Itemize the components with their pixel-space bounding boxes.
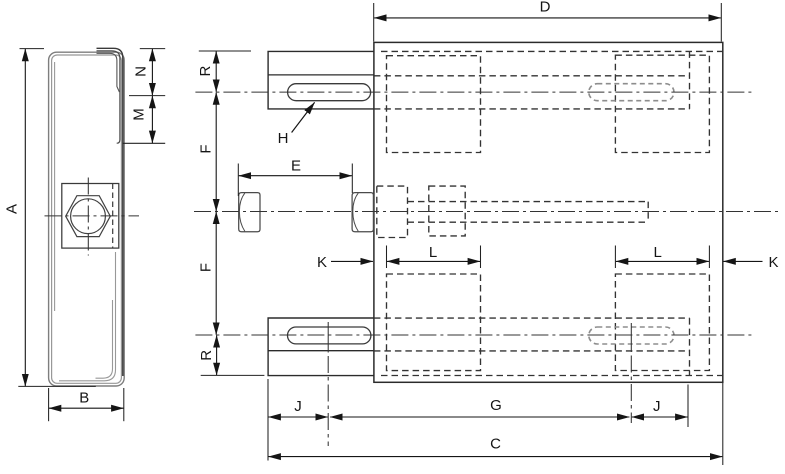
centerline bottom-right slot vertical [630,323,632,352]
dimension M extension bottom [123,142,166,144]
centerline top slots [195,91,754,93]
svg-text:J: J [653,398,661,415]
dimension L left [387,260,480,262]
side view outer profile [49,52,125,386]
dimension K right arrow [723,260,762,262]
svg-text:J: J [294,398,302,415]
screw head right chamfer arcs [353,193,359,231]
svg-text:H: H [278,130,289,147]
dimension A extension bottom [18,385,96,387]
hidden square nut [429,186,465,236]
dimension D extension right [720,3,722,42]
side view bottom-right fold outer [59,252,116,381]
hidden nut behind body [377,186,408,237]
dimension R top [215,51,217,92]
side view folded tab inner line [97,53,120,92]
dimension J right [632,416,688,418]
hex nut [66,196,111,237]
svg-text:E: E [291,157,301,174]
top-left tab block [268,51,374,109]
side view inner sheet line [52,55,122,383]
side view vertical centerline [87,178,89,256]
hidden square hole bottom-left [387,274,481,371]
dimension R bottom extension [201,374,265,376]
svg-text:K: K [768,254,778,271]
dimension A [24,49,26,386]
svg-text:R: R [198,350,215,361]
dimension D extension left [373,3,375,42]
nut plate [62,184,119,249]
dimension L right [616,260,709,262]
top-left slot H [288,84,371,101]
hidden bottom fold line lower [381,375,722,377]
dimension B extension right [123,388,125,421]
svg-text:M: M [131,108,148,121]
hidden top fold line upper [381,50,722,52]
side view bottom-right fold inner [96,300,113,378]
hidden bottom fold line upper [374,317,690,319]
side view folded tab outer line [97,48,123,376]
hidden slot bottom-right [589,327,674,344]
dimension R top extension [199,50,251,52]
dimension R bottom [216,335,218,375]
hidden top fold line mid [374,75,690,77]
hidden square hole bottom-right [615,274,709,371]
dimension B [49,407,124,409]
dimension N extension top [140,48,165,50]
hidden screw shaft bottom line [408,221,649,223]
centerline bottom-left slot vertical [327,322,329,353]
hidden bottom fold line mid [374,350,690,352]
side view folded tab middle line [97,51,120,143]
bottom-left tab fold line [268,350,374,352]
leader H arrow [292,102,315,132]
hidden top tab right edge [689,51,691,109]
dimension E extension right [351,164,353,194]
dimension L right extensions [615,246,709,269]
hidden square hole top-left [387,56,481,153]
dimension B extension left [48,388,50,421]
extension line C right [722,383,724,465]
hidden slot top-right [589,84,674,101]
hidden square hole top-right [615,55,709,152]
side view horizontal centerline [45,215,140,217]
extension line left tab bottom [267,379,269,461]
bottom-left slot [288,327,371,344]
hidden screw shaft top line [408,201,649,203]
dimension L left extensions [387,246,481,269]
dimension K left arrow [331,260,373,262]
main body [374,42,723,382]
dimension D [374,17,721,19]
dimension F top [215,92,217,211]
svg-text:D: D [540,0,551,16]
hidden top fold line lower [374,108,690,110]
dimension F bottom [215,212,217,335]
nut circle [71,199,106,234]
svg-text:F: F [198,263,215,272]
screw head right [352,193,373,232]
top-left tab fold line [268,74,374,76]
svg-text:L: L [654,244,662,261]
dimension M [151,96,153,143]
svg-text:G: G [490,397,502,414]
svg-text:C: C [490,435,501,452]
extension line J right [687,385,689,428]
svg-text:A: A [4,204,21,214]
dimension N [151,49,153,95]
nut plate hidden edge [112,184,114,249]
dimension N/M middle extension [129,95,165,97]
svg-text:F: F [198,144,215,153]
dimension A extension top [20,48,45,50]
dimension E [239,175,352,177]
svg-text:B: B [79,390,89,407]
svg-text:K: K [317,254,327,271]
dimension C [269,456,723,458]
hidden bottom tab right edge [689,318,691,375]
centerline bottom slots [195,334,754,336]
svg-text:L: L [429,244,437,261]
hidden screw shaft end cap [647,202,649,223]
side view left sheet lip edge [54,62,56,311]
dimension E extension left [237,164,239,197]
centerline middle screws [194,211,779,213]
screw head left chamfer arcs [239,193,245,231]
bottom-left tab block [268,318,374,376]
svg-text:R: R [197,66,214,77]
screw head left [239,193,260,232]
dimension J left [269,416,328,418]
svg-text:N: N [133,66,150,77]
dimension G [330,416,629,418]
